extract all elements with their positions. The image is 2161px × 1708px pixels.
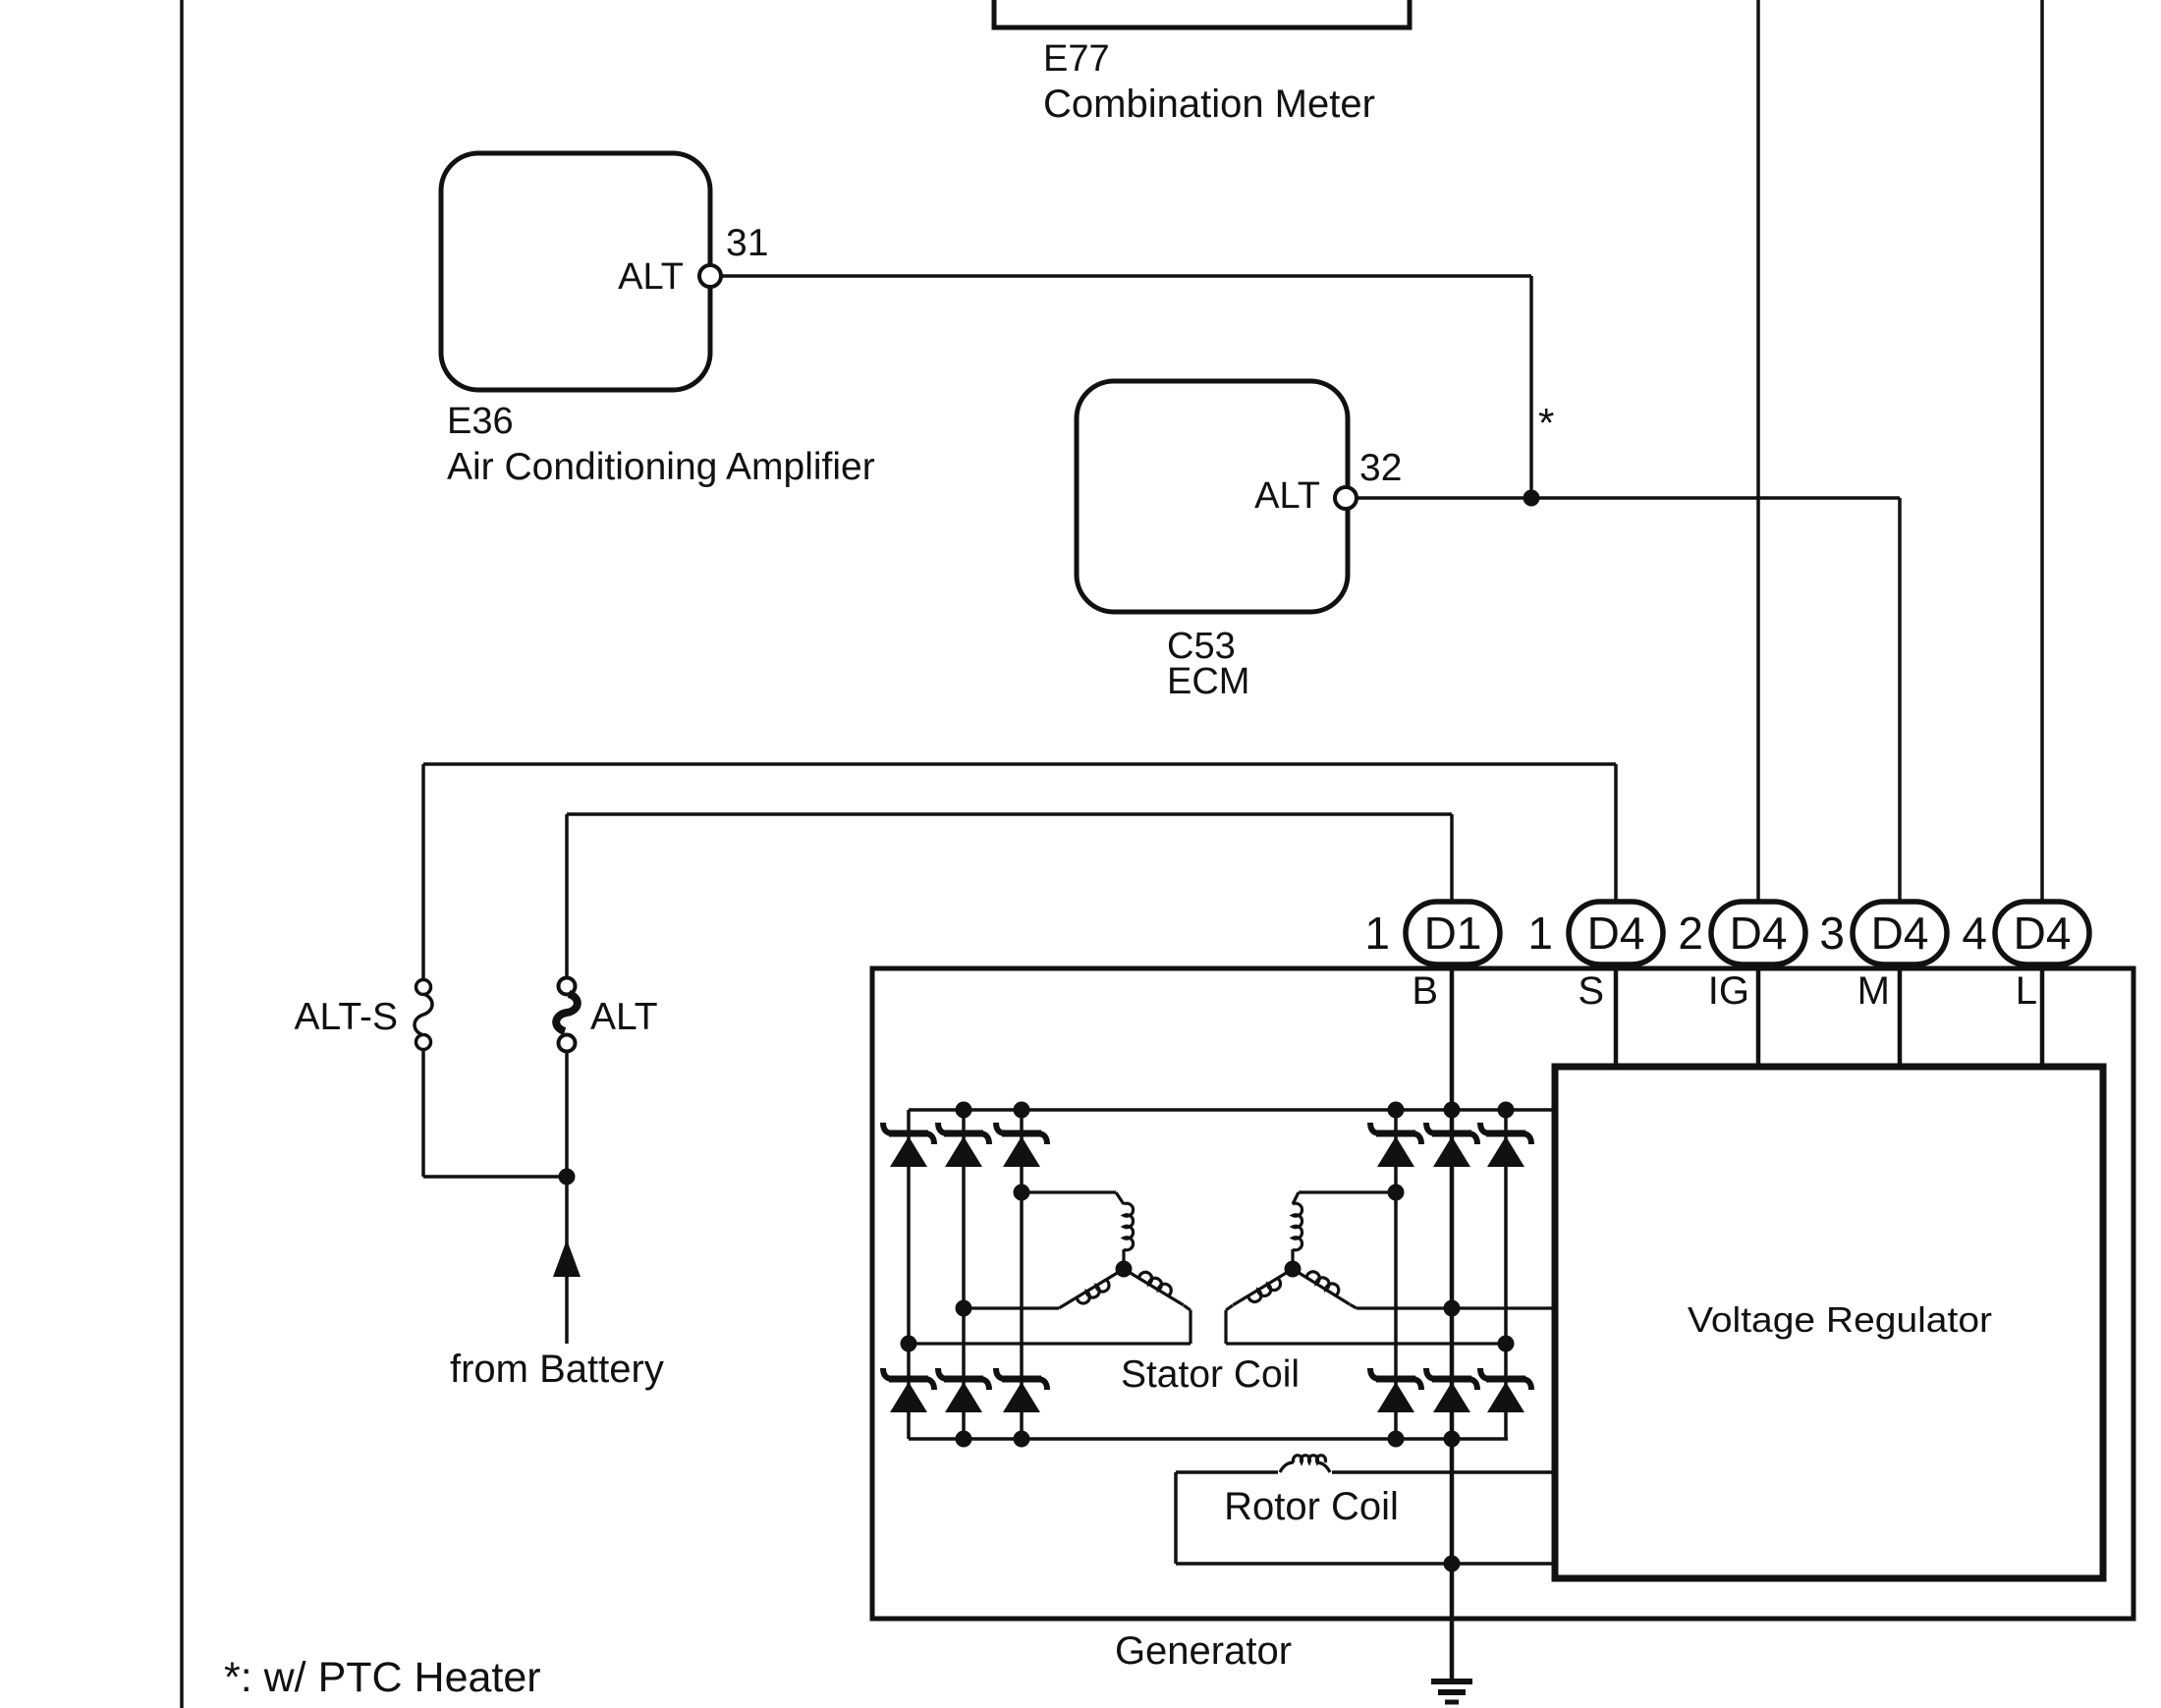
svg-text:Voltage Regulator: Voltage Regulator: [1688, 1299, 1992, 1340]
svg-text:3: 3: [1819, 908, 1845, 959]
svg-text:1: 1: [1527, 908, 1553, 959]
svg-text:S: S: [1578, 969, 1604, 1013]
svg-text:ALT: ALT: [1254, 475, 1320, 517]
svg-text:ALT-S: ALT-S: [295, 996, 398, 1038]
svg-text:Rotor Coil: Rotor Coil: [1224, 1485, 1399, 1528]
svg-text:Combination Meter: Combination Meter: [1043, 83, 1375, 126]
svg-text:ALT: ALT: [618, 256, 684, 298]
svg-text:D4: D4: [2014, 908, 2072, 959]
svg-text:ALT: ALT: [590, 996, 658, 1038]
svg-text:E77: E77: [1043, 38, 1110, 80]
svg-text:*: w/ PTC Heater: *: w/ PTC Heater: [224, 1654, 541, 1701]
svg-text:2: 2: [1678, 908, 1703, 959]
svg-text:D1: D1: [1424, 908, 1482, 959]
svg-text:D4: D4: [1730, 908, 1788, 959]
svg-text:32: 32: [1359, 447, 1402, 489]
svg-text:B: B: [1412, 969, 1438, 1013]
svg-text:31: 31: [726, 222, 768, 264]
svg-text:L: L: [2016, 969, 2037, 1013]
svg-text:M: M: [1857, 969, 1890, 1013]
svg-text:Stator Coil: Stator Coil: [1121, 1353, 1300, 1396]
svg-text:from Battery: from Battery: [450, 1348, 664, 1391]
svg-text:D4: D4: [1871, 908, 1929, 959]
svg-text:E36: E36: [447, 401, 514, 442]
svg-text:4: 4: [1962, 908, 1987, 959]
svg-text:IG: IG: [1708, 969, 1749, 1013]
svg-text:*: *: [1538, 400, 1554, 446]
svg-text:D4: D4: [1587, 908, 1645, 959]
svg-text:Air Conditioning Amplifier: Air Conditioning Amplifier: [447, 446, 875, 488]
svg-text:Generator: Generator: [1115, 1629, 1292, 1673]
svg-text:ECM: ECM: [1167, 661, 1249, 702]
svg-text:1: 1: [1364, 908, 1390, 959]
